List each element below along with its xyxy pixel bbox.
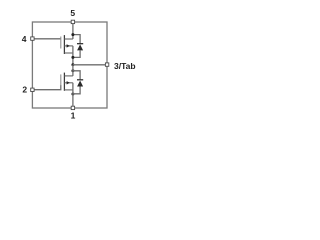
diode D2 anode return wire (73, 87, 80, 94)
pin 3 pad (105, 63, 108, 66)
svg-text:4: 4 (22, 34, 27, 44)
transistor Q2 (bottom N-channel MOSFET) (61, 73, 73, 91)
wire: Q1 source down to tab node (72, 46, 74, 65)
transistor Q1 (top N-channel MOSFET) (61, 35, 73, 54)
junction dot: Q1 drain / D1 (71, 33, 74, 36)
diode D2 triangle (77, 81, 83, 87)
package outline rectangle (32, 22, 107, 108)
diode D1 cathode bar (77, 43, 83, 45)
svg-text:5: 5 (70, 8, 75, 18)
svg-text:1: 1 (71, 110, 76, 120)
Q1 body arrow (67, 44, 70, 47)
diode D1 triangle (77, 44, 83, 50)
junction dot: Q1 source / D1 (71, 56, 74, 59)
svg-text:2: 2 (22, 85, 27, 95)
pin 5 pad (71, 20, 74, 23)
pin 2 pad (31, 88, 34, 91)
diode D2 cathode bar (77, 79, 83, 81)
svg-text:3/Tab: 3/Tab (114, 61, 136, 71)
pin 4 pad (31, 37, 34, 40)
body diode D2 branch wire (cathode) (73, 71, 80, 80)
wire: tab node to pin 3 (73, 64, 105, 66)
junction dot: Q2 source / D2 (71, 93, 74, 96)
wire: gate lead from pin 4 to Q1 gate (34, 38, 60, 40)
junction dot: tab node (71, 63, 74, 66)
Q2 body arrow (67, 81, 70, 84)
wire: tab node down to Q2 drain (72, 65, 74, 76)
wire: gate lead from pin 2 up to Q2 gate (34, 85, 60, 90)
wire: Q2 source down to pin 1 (72, 83, 74, 106)
pin 1 pad (71, 106, 74, 109)
body diode D1 branch wire (cathode) (73, 35, 80, 44)
junction dot: Q2 drain / D2 (71, 69, 74, 72)
diode D1 anode return wire (73, 50, 80, 57)
wire: pin 5 drain lead down to Q1 (72, 24, 74, 39)
